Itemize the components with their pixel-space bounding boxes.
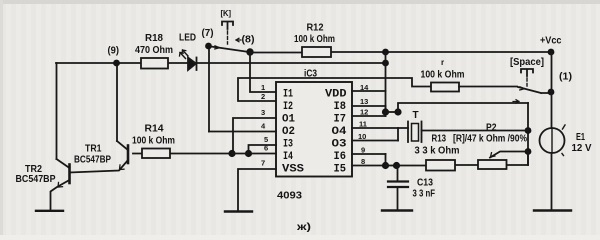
resistor R14: [142, 149, 170, 159]
junction C13 node: [393, 162, 400, 169]
svg-text:O3: O3: [332, 139, 347, 151]
IC pin labels left column: [282, 89, 304, 176]
wire pin13-12 vertical: [385, 106, 387, 116]
key K linkage dashed: [227, 31, 229, 44]
wire dot link: [386, 111, 399, 113]
svg-text:12: 12: [360, 108, 368, 117]
resistor R12: [302, 47, 331, 57]
svg-text:9: 9: [361, 146, 365, 155]
wire TR1 collector vertical: [116, 63, 118, 141]
svg-text:I3: I3: [283, 139, 293, 151]
svg-text:14: 14: [360, 83, 369, 92]
svg-text:2: 2: [261, 92, 265, 101]
battery plus tick: [563, 125, 566, 129]
wire pin5: [249, 145, 277, 154]
wire pin14 stub: [352, 90, 386, 92]
capacitor C13: [397, 166, 399, 182]
key K symbol: [222, 22, 233, 30]
svg-text:r: r: [441, 58, 444, 67]
svg-text:[K]: [K]: [221, 9, 232, 18]
wire VDD vertical x385: [385, 52, 387, 112]
resistor r: [431, 83, 459, 92]
svg-text:I4: I4: [283, 151, 293, 163]
wire to C13 node: [386, 165, 397, 167]
svg-text:[R]/47 k Ohm /90%: [R]/47 k Ohm /90%: [453, 134, 527, 145]
key K switch arm: [211, 47, 249, 53]
wire r to Space: [459, 86, 517, 88]
potentiometer P2 body: [478, 160, 507, 169]
IC pin labels right column: [325, 89, 347, 176]
svg-text:BC547BP: BC547BP: [74, 155, 111, 166]
node (7) vertical wire: [208, 46, 210, 132]
svg-text:(9): (9): [108, 46, 120, 57]
svg-text:I2: I2: [283, 101, 293, 113]
svg-text:C13: C13: [417, 178, 433, 189]
arrow at node 8 pointer: [236, 38, 241, 42]
svg-text:VDD: VDD: [325, 89, 347, 101]
svg-text:I6: I6: [334, 151, 347, 163]
junction pins 5-6 node: [245, 150, 252, 157]
junction main row right: [382, 60, 389, 67]
svg-text:(7): (7): [202, 28, 214, 39]
wire pin10 stub: [352, 140, 398, 142]
wire Vcc rail vertical: [551, 52, 553, 128]
wire pin12 stub: [352, 115, 386, 117]
key Space symbol: [521, 69, 533, 76]
potentiometer P2 wiper: [490, 152, 528, 158]
node (8) junction dot: [246, 48, 253, 55]
ground battery: [534, 209, 571, 211]
svg-text:VSS: VSS: [282, 164, 304, 176]
svg-text:R12: R12: [307, 23, 324, 34]
node (7) junction dot: [205, 43, 212, 50]
svg-text:I5: I5: [334, 164, 347, 176]
node +Vcc junction: [548, 49, 555, 56]
svg-text:10: 10: [358, 132, 366, 141]
wire pin1: [250, 53, 276, 93]
svg-text:BC547BP: BC547BP: [16, 174, 56, 185]
ground IC: [225, 210, 252, 212]
svg-text:R13: R13: [432, 134, 447, 145]
battery minus tick: [562, 154, 564, 156]
svg-text:11: 11: [359, 120, 367, 129]
svg-text:6: 6: [264, 144, 268, 153]
resistor R18: [141, 58, 168, 69]
svg-text:8: 8: [361, 157, 365, 166]
svg-text:100 k Ohm: 100 k Ohm: [132, 136, 175, 147]
svg-text:I7: I7: [334, 114, 347, 126]
wire R13 row: [397, 152, 529, 166]
wire pin2 loop: [238, 78, 431, 101]
wire pin7 ground lead: [238, 169, 276, 211]
svg-text:100 k Ohm: 100 k Ohm: [421, 70, 465, 81]
svg-text:LED: LED: [179, 33, 196, 44]
svg-text:I8: I8: [334, 101, 347, 113]
node (9) junction: [113, 60, 120, 67]
svg-text:13: 13: [360, 97, 368, 106]
svg-text:7: 7: [261, 159, 265, 168]
arrow marker right: [513, 100, 519, 104]
IC3 box: [276, 82, 352, 177]
junction pins 13-12: [382, 108, 389, 115]
svg-text:ж): ж): [296, 222, 311, 233]
wire pin8 stub: [352, 165, 386, 167]
wire pin4: [209, 131, 276, 133]
junction crystal feed: [394, 108, 401, 115]
wire between R14 node and pin6 node: [232, 153, 249, 155]
junction R14 node: [228, 150, 235, 157]
svg-text:3 3 k Ohm: 3 3 k Ohm: [415, 146, 460, 157]
svg-text:4093: 4093: [277, 191, 302, 202]
svg-text:E1: E1: [576, 132, 585, 143]
svg-text:R18: R18: [145, 33, 163, 44]
junction VDD rail top: [382, 49, 389, 56]
transistor TR2: [68, 165, 71, 184]
svg-text:(8): (8): [242, 35, 255, 46]
svg-text:P2: P2: [486, 123, 497, 134]
wire pin9 stub: [352, 153, 386, 155]
svg-text:I1: I1: [283, 89, 293, 101]
junction pins 9-8: [382, 162, 389, 169]
wire R12 row y52: [250, 51, 551, 54]
wire pin11-pin10 vertical: [397, 128, 399, 141]
crystal T: [407, 122, 409, 143]
svg-text:1: 1: [261, 83, 265, 92]
wire pin6: [249, 153, 277, 155]
key Space linkage dashed: [526, 78, 528, 86]
junction crystal right: [525, 127, 532, 134]
svg-text:TR1: TR1: [85, 144, 102, 155]
svg-text:3 3 nF: 3 3 nF: [413, 189, 436, 200]
svg-text:T: T: [413, 110, 419, 121]
svg-text:O4: O4: [332, 126, 347, 138]
wire pin9-8 vertical: [385, 154, 387, 166]
ground TR2: [36, 210, 63, 212]
wire right vertical x528: [527, 103, 529, 165]
ground C13: [382, 209, 412, 211]
wire pin3: [233, 118, 276, 154]
svg-text:iC3: iC3: [304, 69, 317, 80]
svg-text:3: 3: [261, 108, 265, 117]
svg-text:O2: O2: [282, 126, 295, 138]
svg-text:R14: R14: [145, 124, 164, 135]
junction wiper: [525, 148, 532, 155]
svg-text:100 k Ohm: 100 k Ohm: [294, 34, 335, 45]
svg-text:[Space]: [Space]: [510, 57, 544, 68]
wire TR2 collector rail: [56, 63, 58, 159]
svg-text:(1): (1): [559, 72, 572, 83]
transistor TR1: [127, 146, 130, 164]
svg-text:+Vcc: +Vcc: [540, 36, 562, 47]
wire pin13 stub: [352, 105, 386, 107]
wire R14 row: [133, 153, 232, 155]
wire pin11 to crystal: [352, 127, 408, 129]
svg-text:O1: O1: [282, 114, 295, 126]
wire main row y63: [56, 62, 386, 64]
wire feedback top y103: [398, 103, 528, 112]
svg-text:470 Ohm: 470 Ohm: [135, 45, 173, 56]
resistor R13: [426, 160, 455, 171]
switch Space arm: [518, 87, 548, 93]
wire crystal right: [422, 130, 529, 132]
battery E1 circle: [540, 128, 565, 153]
junction Vcc rail at Space: [548, 89, 555, 96]
LED D1: [188, 58, 196, 71]
svg-text:12 V: 12 V: [572, 143, 592, 154]
